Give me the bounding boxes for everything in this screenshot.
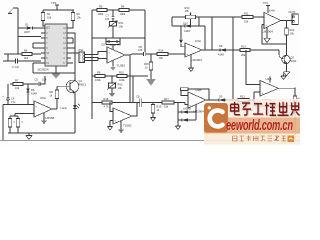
svg-text:4.7k: 4.7k: [104, 105, 110, 109]
svg-text:+: +: [35, 104, 37, 108]
svg-text:LM2904: LM2904: [262, 30, 273, 34]
svg-text:10k: 10k: [118, 86, 123, 90]
svg-text:104: 104: [42, 78, 47, 82]
svg-text:D1: D1: [25, 23, 29, 27]
svg-text:U4A: U4A: [269, 9, 275, 13]
svg-text:4148: 4148: [31, 91, 37, 95]
svg-text:R18: R18: [104, 97, 109, 101]
svg-text:S9013: S9013: [79, 83, 87, 87]
svg-text:10k: 10k: [290, 32, 295, 36]
svg-text:Q1: Q1: [79, 79, 83, 83]
svg-text:10k: 10k: [47, 16, 52, 20]
svg-text:+: +: [114, 118, 116, 122]
svg-text:eeworld.com.cn: eeworld.com.cn: [226, 117, 293, 134]
svg-text:LM2904: LM2904: [193, 110, 204, 114]
svg-text:D8: D8: [219, 44, 223, 48]
svg-text:10k: 10k: [77, 16, 82, 20]
svg-text:R17: R17: [164, 97, 169, 101]
svg-text:+: +: [108, 50, 110, 54]
svg-text:-: -: [189, 95, 190, 99]
svg-text:TL082: TL082: [123, 124, 132, 128]
svg-text:-: -: [108, 57, 109, 61]
svg-text:-: -: [186, 46, 187, 50]
svg-text:10k: 10k: [15, 86, 20, 90]
svg-text:R19: R19: [157, 105, 162, 109]
svg-text:47u: 47u: [11, 100, 16, 104]
svg-text:C9: C9: [136, 95, 140, 99]
svg-text:D10: D10: [183, 21, 188, 25]
svg-text:P10: P10: [79, 48, 84, 52]
svg-text:R6: R6: [121, 5, 125, 9]
svg-text:R7: R7: [15, 79, 19, 83]
svg-text:10k: 10k: [159, 56, 164, 60]
svg-text:100k: 100k: [119, 78, 125, 82]
svg-text:R9: R9: [97, 71, 101, 75]
svg-text:TP1: TP1: [51, 1, 57, 5]
svg-text:TP3: TP3: [263, 1, 268, 5]
svg-text:0.1uF: 0.1uF: [12, 65, 19, 69]
svg-text:R21: R21: [240, 94, 245, 98]
svg-text:U2A: U2A: [110, 43, 116, 47]
svg-text:10k: 10k: [244, 20, 249, 24]
svg-text:-: -: [261, 84, 262, 88]
svg-text:100k: 100k: [98, 12, 104, 16]
svg-text:D9: D9: [219, 94, 223, 98]
svg-text:U3A: U3A: [195, 39, 201, 43]
svg-text:U3B: U3B: [196, 88, 202, 92]
svg-text:R5: R5: [99, 5, 103, 9]
svg-text:SG3524: SG3524: [38, 68, 49, 72]
svg-text:104: 104: [138, 48, 143, 52]
svg-text:LM358: LM358: [45, 116, 55, 120]
svg-text:R13: R13: [241, 45, 246, 49]
svg-text:Lamp: Lamp: [61, 106, 68, 110]
svg-text:LM2904: LM2904: [191, 58, 202, 62]
svg-text:U3B: U3B: [266, 77, 272, 81]
svg-text:C5: C5: [35, 78, 39, 82]
svg-text:4148: 4148: [184, 29, 190, 33]
svg-text:4148: 4148: [218, 53, 224, 57]
svg-text:RV3: RV3: [185, 6, 191, 10]
svg-text:R11: R11: [244, 12, 249, 16]
svg-text:-: -: [114, 111, 115, 115]
svg-text:R15: R15: [144, 62, 149, 66]
svg-text:20k: 20k: [241, 53, 246, 57]
svg-text:10k: 10k: [119, 24, 124, 28]
svg-text:R8: R8: [50, 90, 54, 94]
svg-text:R10: R10: [119, 71, 124, 75]
svg-text:2k2: 2k2: [24, 56, 29, 60]
svg-text:100k: 100k: [120, 12, 126, 16]
svg-text:R1: R1: [47, 12, 51, 16]
svg-text:100k: 100k: [95, 78, 101, 82]
svg-text:D2: D2: [102, 43, 106, 47]
svg-text:10k: 10k: [185, 9, 190, 13]
svg-text:OUT1: OUT1: [289, 10, 296, 14]
svg-text:4007: 4007: [24, 30, 30, 34]
svg-text:R4: R4: [24, 49, 28, 53]
svg-text:10k: 10k: [164, 105, 169, 109]
svg-text:R14: R14: [159, 49, 164, 53]
svg-text:TL082: TL082: [117, 64, 126, 68]
svg-text:104: 104: [105, 17, 110, 21]
svg-text:D3: D3: [118, 43, 122, 47]
svg-text:R2: R2: [77, 12, 81, 16]
svg-text:-: -: [265, 15, 266, 19]
svg-text:R24: R24: [290, 28, 295, 32]
svg-text:-: -: [35, 111, 36, 115]
svg-text:9012: 9012: [291, 59, 297, 63]
svg-text:Q2: Q2: [291, 56, 295, 60]
svg-text:U5A: U5A: [40, 96, 46, 100]
